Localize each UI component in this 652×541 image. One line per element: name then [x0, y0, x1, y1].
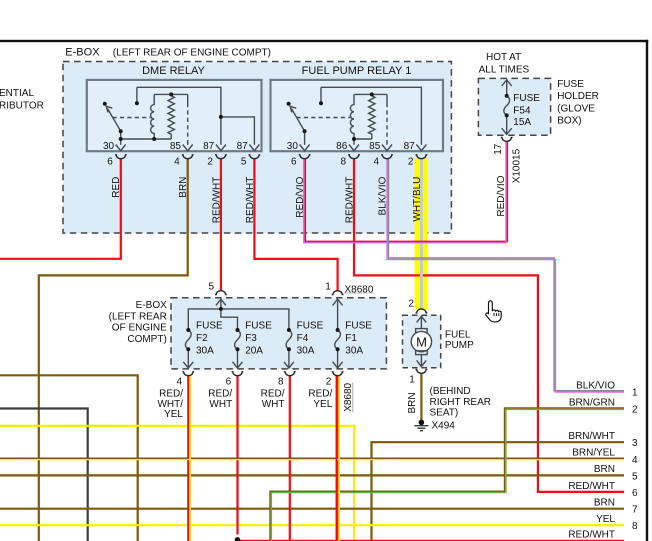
svg-text:RED/WHT: RED/WHT — [211, 177, 222, 224]
svg-text:85: 85 — [170, 141, 182, 152]
svg-text:5: 5 — [241, 156, 247, 167]
svg-text:RED/WHT: RED/WHT — [344, 177, 355, 224]
svg-text:FUSE: FUSE — [345, 321, 372, 332]
svg-text:4: 4 — [373, 156, 379, 167]
svg-text:HOT AT: HOT AT — [486, 52, 521, 63]
svg-text:30A: 30A — [196, 345, 214, 356]
svg-text:OF ENGINE: OF ENGINE — [112, 323, 167, 334]
svg-text:FUSE: FUSE — [297, 321, 324, 332]
svg-text:87: 87 — [203, 141, 215, 152]
svg-text:M: M — [416, 334, 427, 349]
svg-text:1: 1 — [325, 282, 331, 293]
svg-text:4: 4 — [176, 376, 182, 387]
svg-text:HOLDER: HOLDER — [557, 91, 599, 102]
svg-text:6: 6 — [107, 156, 113, 167]
svg-text:FUSE: FUSE — [196, 321, 223, 332]
svg-text:YEL: YEL — [313, 399, 332, 410]
svg-text:BRN/YEL: BRN/YEL — [572, 448, 615, 459]
svg-text:E-BOX: E-BOX — [136, 300, 167, 311]
svg-text:6: 6 — [291, 156, 297, 167]
svg-text:RED/WHT: RED/WHT — [245, 177, 256, 224]
svg-text:FUEL: FUEL — [445, 329, 471, 340]
svg-text:(GLOVE: (GLOVE — [557, 103, 595, 114]
svg-text:F54: F54 — [513, 105, 531, 116]
svg-text:4: 4 — [174, 156, 180, 167]
svg-text:(LEFT REAR: (LEFT REAR — [109, 311, 167, 322]
svg-text:2: 2 — [207, 156, 213, 167]
svg-text:BRN: BRN — [178, 177, 189, 198]
svg-text:(BEHIND: (BEHIND — [430, 386, 471, 397]
svg-text:X8680: X8680 — [345, 285, 374, 296]
svg-text:1: 1 — [632, 388, 638, 399]
svg-text:30A: 30A — [297, 345, 315, 356]
svg-text:PUMP: PUMP — [445, 340, 474, 351]
svg-text:BRN: BRN — [594, 498, 615, 509]
svg-text:RED/WHT: RED/WHT — [568, 529, 615, 540]
svg-text:RED/WHT: RED/WHT — [568, 481, 615, 492]
svg-text:F1: F1 — [345, 333, 357, 344]
svg-text:BLK/VIO: BLK/VIO — [377, 176, 388, 215]
svg-text:4: 4 — [632, 455, 638, 466]
svg-text:FUSE: FUSE — [245, 321, 272, 332]
svg-text:WHT/BLU: WHT/BLU — [412, 177, 423, 222]
svg-text:WHT: WHT — [209, 399, 232, 410]
svg-text:30: 30 — [103, 141, 115, 152]
svg-text:RED/: RED/ — [208, 388, 232, 399]
svg-text:8: 8 — [632, 521, 638, 532]
svg-text:BRN: BRN — [594, 464, 615, 475]
svg-text:15A: 15A — [513, 117, 531, 128]
svg-text:YEL: YEL — [164, 409, 183, 420]
svg-text:ALL TIMES: ALL TIMES — [479, 64, 530, 75]
svg-text:1: 1 — [409, 374, 415, 385]
svg-text:RED/: RED/ — [261, 388, 285, 399]
svg-text:8: 8 — [278, 376, 284, 387]
svg-text:BRN: BRN — [407, 392, 418, 413]
svg-text:2: 2 — [408, 298, 414, 309]
svg-text:3: 3 — [632, 438, 638, 449]
svg-text:F4: F4 — [297, 333, 309, 344]
svg-text:FUSE: FUSE — [557, 79, 584, 90]
svg-text:2: 2 — [632, 405, 638, 416]
svg-text:BLK/VIO: BLK/VIO — [576, 380, 615, 391]
svg-text:85: 85 — [369, 141, 381, 152]
svg-text:BOX): BOX) — [557, 115, 581, 126]
svg-text:BRN/GRN: BRN/GRN — [569, 398, 615, 409]
svg-text:F3: F3 — [245, 333, 257, 344]
svg-text:DME RELAY: DME RELAY — [142, 65, 205, 77]
svg-text:COMPT): COMPT) — [127, 334, 166, 345]
svg-text:86: 86 — [336, 141, 348, 152]
svg-text:RIGHT REAR: RIGHT REAR — [430, 397, 492, 408]
svg-text:RED: RED — [111, 177, 122, 198]
svg-text:X10015: X10015 — [511, 148, 522, 183]
svg-text:RED/VIO: RED/VIO — [295, 176, 306, 217]
svg-text:FUSE: FUSE — [513, 93, 540, 104]
svg-text:WHT/: WHT/ — [157, 399, 183, 410]
svg-text:YEL: YEL — [596, 514, 615, 525]
svg-text:RED/: RED/ — [308, 388, 332, 399]
svg-text:FUEL PUMP RELAY 1: FUEL PUMP RELAY 1 — [302, 65, 412, 77]
svg-text:WHT: WHT — [262, 399, 285, 410]
svg-text:SEAT): SEAT) — [430, 408, 459, 419]
svg-text:BRN/WHT: BRN/WHT — [568, 431, 615, 442]
svg-text:6: 6 — [226, 376, 232, 387]
svg-text:ENTIAL: ENTIAL — [0, 88, 34, 99]
svg-text:7: 7 — [632, 505, 638, 516]
svg-text:RED/VIO: RED/VIO — [496, 175, 507, 216]
svg-text:X8680: X8680 — [343, 382, 354, 411]
svg-text:20A: 20A — [245, 345, 263, 356]
svg-text:5: 5 — [632, 471, 638, 482]
svg-text:6: 6 — [632, 488, 638, 499]
svg-text:RIBUTOR: RIBUTOR — [0, 101, 44, 112]
svg-text:(LEFT REAR OF ENGINE COMPT): (LEFT REAR OF ENGINE COMPT) — [113, 48, 271, 59]
svg-text:E-BOX: E-BOX — [65, 47, 100, 59]
svg-text:2: 2 — [408, 156, 414, 167]
svg-text:17: 17 — [493, 143, 504, 155]
svg-text:F2: F2 — [196, 333, 208, 344]
svg-text:30A: 30A — [345, 345, 363, 356]
svg-text:5: 5 — [209, 282, 215, 293]
svg-text:87: 87 — [237, 141, 249, 152]
svg-text:2: 2 — [326, 376, 332, 387]
svg-text:8: 8 — [340, 156, 346, 167]
svg-text:87: 87 — [404, 141, 416, 152]
svg-text:30: 30 — [287, 141, 299, 152]
svg-text:X494: X494 — [432, 420, 456, 431]
svg-text:RED/: RED/ — [159, 388, 183, 399]
